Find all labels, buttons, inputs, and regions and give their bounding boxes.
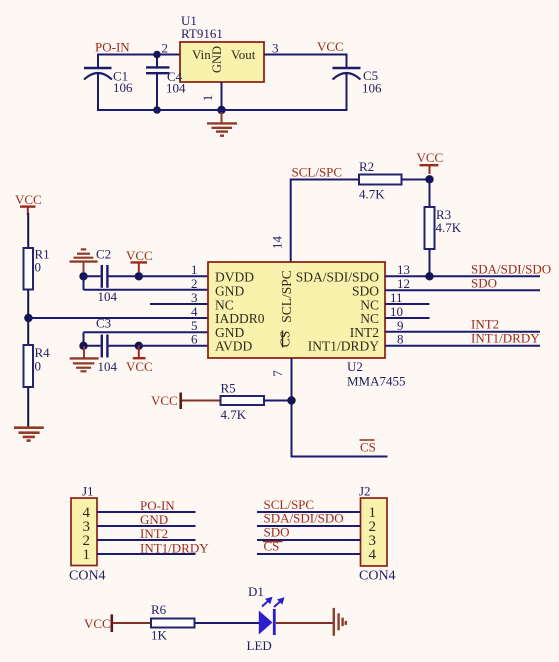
svg-text:CON4: CON4 — [69, 569, 106, 584]
svg-text:13: 13 — [397, 262, 410, 277]
capacitor C4 — [146, 55, 170, 111]
ground at LED (sideways) — [334, 608, 346, 636]
svg-text:R5: R5 — [221, 381, 236, 396]
wire J2-1 SCL/SPC — [257, 511, 361, 513]
junction C4 top — [153, 51, 161, 59]
svg-text:4.7K: 4.7K — [436, 220, 462, 235]
svg-text:Vout: Vout — [231, 47, 256, 62]
svg-text:4.7K: 4.7K — [221, 407, 247, 422]
svg-text:4.7K: 4.7K — [359, 187, 385, 202]
svg-text:VCC: VCC — [151, 393, 178, 408]
junction U1 GND to bottom rail — [217, 106, 225, 114]
junction pin7/R5 — [287, 396, 295, 404]
svg-text:106: 106 — [362, 81, 382, 96]
svg-text:SDO: SDO — [471, 276, 497, 291]
svg-text:3: 3 — [191, 290, 198, 305]
svg-text:AVDD: AVDD — [215, 339, 253, 354]
wire J2-3 SDO — [257, 539, 361, 541]
svg-text:NC: NC — [360, 311, 379, 326]
svg-text:11: 11 — [390, 290, 403, 305]
power VCC at R6 — [84, 614, 112, 632]
svg-text:R2: R2 — [359, 159, 374, 174]
wire U2 pin 7 vertical — [291, 358, 293, 457]
IC U2 MMA7455 — [208, 262, 406, 389]
svg-text:LED: LED — [247, 638, 272, 653]
wire node to U2 pin 4 IADDR0 — [28, 317, 208, 319]
svg-text:VCC: VCC — [126, 248, 153, 263]
wire J1-3 GND — [97, 525, 196, 527]
junction VCC/R2/R3 — [425, 175, 433, 183]
wire J1-2 INT2 — [97, 539, 196, 541]
wire PO-IN rail to U1 pin 2 — [97, 54, 180, 56]
svg-text:J1: J1 — [82, 484, 94, 499]
wire C2 VCC node to U2 pin 1 DVDD — [139, 275, 208, 277]
wire R2 to VCC node — [402, 179, 430, 181]
wire pin 13 SDA/SDI/SDO — [385, 275, 540, 277]
svg-text:INT2: INT2 — [140, 526, 168, 541]
svg-text:0: 0 — [35, 260, 42, 275]
wire VCC to R6 (red) — [113, 622, 151, 624]
U2 pin name CS rotated with overline — [278, 331, 293, 348]
svg-text:VCC: VCC — [417, 150, 444, 165]
capacitor C3 — [84, 316, 209, 375]
wire U1 GND stem — [221, 82, 223, 110]
svg-text:VCC: VCC — [317, 39, 344, 54]
wire pin 8 INT1/DRDY — [385, 345, 540, 347]
svg-text:SDO: SDO — [352, 284, 379, 299]
svg-text:VCC: VCC — [15, 192, 42, 207]
ground bottom left — [14, 428, 44, 441]
resistor R1 — [24, 247, 50, 290]
wire R4 to ground — [27, 387, 29, 427]
power VCC at R5 — [151, 393, 181, 410]
wire NC stub pin 3 — [150, 303, 208, 305]
ground under U1 — [207, 112, 237, 136]
svg-text:PO-IN: PO-IN — [140, 498, 175, 513]
svg-text:104: 104 — [166, 81, 186, 96]
svg-text:INT2: INT2 — [471, 317, 499, 332]
wire pin 11 stub — [385, 303, 430, 305]
wire VCC node to R3 — [429, 179, 431, 207]
wire U2 pin 14 vertical — [290, 179, 292, 263]
wire J2-4 CS — [257, 553, 361, 555]
svg-text:6: 6 — [191, 332, 198, 347]
wire C2 ground node down — [83, 276, 85, 290]
resistor R6 — [151, 602, 195, 643]
svg-text:7: 7 — [270, 370, 285, 377]
wire J1-1 INT1/DRDY — [97, 553, 196, 555]
wire R5 to pin 7 node — [264, 400, 292, 402]
wire C3 VCC node to U2 pin 6 AVDD — [139, 345, 208, 347]
junction C3 ground node — [79, 342, 87, 350]
svg-text:INT1/DRDY: INT1/DRDY — [140, 541, 209, 556]
svg-text:INT1/DRDY: INT1/DRDY — [471, 331, 540, 346]
svg-text:1: 1 — [83, 547, 91, 563]
svg-text:GND: GND — [215, 284, 244, 299]
svg-text:2: 2 — [191, 276, 198, 291]
capacitor C5 — [333, 54, 383, 112]
op-amp U1 regulator RT9161 — [180, 13, 264, 82]
junction C2 ground node — [79, 272, 87, 280]
power VCC above C2 — [126, 248, 153, 272]
svg-text:1K: 1K — [151, 628, 168, 643]
svg-text:10: 10 — [390, 304, 403, 319]
svg-text:1: 1 — [200, 95, 215, 102]
resistor R2 — [359, 159, 402, 202]
ground above C2 (inverted) — [70, 249, 98, 272]
power VCC below C3 — [126, 346, 153, 374]
junction R3 on pin 13 wire — [425, 272, 433, 280]
svg-text:SCL/SPC: SCL/SPC — [292, 165, 343, 180]
wire J1-4 PO-IN — [97, 511, 196, 513]
svg-text:SCL/SPC: SCL/SPC — [279, 270, 294, 323]
ground below C3 — [70, 346, 99, 371]
svg-text:CS: CS — [360, 440, 376, 455]
svg-text:DVDD: DVDD — [215, 270, 254, 285]
svg-text:106: 106 — [113, 80, 133, 95]
svg-text:C3: C3 — [96, 316, 111, 331]
wire to U2 pin 2 GND — [84, 289, 209, 291]
svg-text:1: 1 — [191, 262, 198, 277]
svg-text:RT9161: RT9161 — [181, 26, 223, 41]
resistor R5 — [221, 381, 265, 423]
svg-text:J2: J2 — [359, 484, 371, 499]
wire SCL/SPC net to R2 — [291, 179, 359, 181]
wire D1 cathode to ground (red) — [276, 622, 333, 624]
wire bottom rail — [97, 109, 347, 111]
wire R6 to D1 — [195, 622, 260, 624]
svg-text:3: 3 — [272, 41, 279, 56]
wire pin 10 stub — [385, 317, 430, 319]
svg-text:VCC: VCC — [84, 616, 111, 631]
svg-text:VCC: VCC — [126, 359, 153, 374]
svg-text:104: 104 — [98, 289, 118, 304]
wire VCC to R1 — [27, 213, 29, 248]
svg-text:14: 14 — [270, 236, 285, 250]
resistor R3 — [425, 207, 462, 249]
power VCC left column — [15, 192, 42, 215]
junction C2 VCC node — [135, 272, 143, 280]
svg-text:CON4: CON4 — [359, 569, 396, 584]
svg-text:SDA/SDI/SDO: SDA/SDI/SDO — [264, 511, 344, 526]
junction R1/R4 node — [24, 314, 32, 322]
LED D1 — [247, 584, 285, 653]
wire R1 to node — [27, 290, 29, 319]
wire VCC to R5 (red) — [182, 400, 221, 402]
svg-text:D1: D1 — [248, 584, 264, 599]
svg-text:4: 4 — [369, 547, 377, 563]
svg-text:GND: GND — [140, 512, 168, 527]
wire CS horizontal — [291, 456, 388, 458]
svg-text:Vin: Vin — [192, 47, 211, 62]
svg-text:0: 0 — [35, 359, 42, 374]
node CS — [360, 440, 376, 455]
connector J1 CON4 — [69, 484, 106, 584]
svg-text:104: 104 — [98, 359, 118, 374]
svg-text:INT1/DRDY: INT1/DRDY — [308, 339, 379, 354]
capacitor C2 — [84, 247, 140, 305]
power VCC above R3 — [417, 150, 444, 174]
svg-text:2: 2 — [162, 41, 169, 56]
svg-text:CS: CS — [278, 331, 293, 348]
svg-text:SDA/SDI/SDO: SDA/SDI/SDO — [296, 270, 380, 285]
svg-text:U2: U2 — [347, 359, 363, 374]
node CS at J2 with overline — [263, 539, 283, 554]
svg-text:C2: C2 — [96, 247, 111, 262]
junction C4 bottom — [153, 106, 161, 114]
wire pin 12 SDO — [385, 289, 540, 291]
svg-text:SDA/SDI/SDO: SDA/SDI/SDO — [471, 262, 551, 277]
svg-text:GND: GND — [210, 46, 224, 73]
svg-text:R6: R6 — [151, 602, 167, 617]
svg-text:4: 4 — [191, 304, 198, 319]
wire U1 Vout to VCC corner — [264, 54, 347, 56]
resistor R4 — [24, 345, 51, 387]
wire pin 9 INT2 — [385, 331, 540, 333]
svg-text:12: 12 — [397, 276, 410, 291]
svg-text:PO-IN: PO-IN — [95, 40, 130, 55]
wire J2-2 SDA/SDI/SDO — [257, 525, 361, 527]
capacitor C1 — [84, 54, 133, 112]
junction C3 VCC node — [135, 342, 143, 350]
connector J2 CON4 — [359, 484, 396, 584]
wire node to R4 — [27, 318, 29, 345]
svg-text:IADDR0: IADDR0 — [215, 311, 265, 326]
wire R3 to pin 13 net — [429, 249, 431, 276]
svg-text:8: 8 — [397, 332, 404, 347]
svg-text:MMA7455: MMA7455 — [347, 374, 406, 389]
svg-text:SDO: SDO — [264, 525, 290, 540]
